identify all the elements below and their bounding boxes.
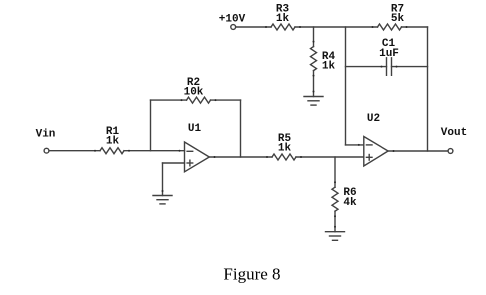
wire C1 branch left [346,66,387,68]
wire feedback right vertical down to U1 output [240,100,242,157]
pin dot ground G2 [313,91,315,93]
pin dot R6 bottom [334,215,336,217]
svg-text:+10V: +10V [219,13,246,25]
wire U1 noninverting input to ground [163,162,185,164]
op-amp U2 minus sign [366,144,372,146]
pin dot R4 bottom [313,75,315,77]
pin dot R6 top [334,181,336,183]
svg-text:5k: 5k [391,13,405,25]
ground G3 under R6 [326,231,345,233]
op-amp U1 [185,142,210,172]
pin dot R4 top [313,41,315,43]
pin dot R3 left [265,26,267,28]
pin dot R2 right [215,99,217,101]
pin dot ground G3 [334,226,336,228]
resistor R1 [100,148,124,154]
wire R2 branch right horizontal [211,99,241,101]
op-amp U1 plus sign [187,162,193,164]
pin dot R5 left [266,156,268,158]
op-amp U1 minus sign [187,150,193,152]
pin dot C1 left [381,66,383,68]
pin dot C1 right [396,66,398,68]
resistor R2 [187,97,211,103]
wire C1 branch right [392,66,428,68]
svg-text:Vin: Vin [36,128,56,140]
wire feedback left vertical (node A up to R2) [150,100,152,151]
resistor R3 [271,24,295,30]
wire R7 to right vertical [402,26,428,28]
svg-text:Vout: Vout [441,127,467,139]
wire Vin to R1 [49,150,100,152]
svg-text:1k: 1k [276,13,290,25]
node Vout terminal [448,149,453,154]
wire U2 output to Vout [388,150,448,152]
pin dot R7 right [406,26,408,28]
wire R2 branch left horizontal [151,99,187,101]
capacitor C1 plates [386,58,388,76]
pin dot R2 left [181,99,183,101]
wire U2 inverting branch vertical (node C down to U2) [345,27,347,145]
resistor R6 [332,187,338,211]
resistor R5 [272,154,296,160]
op-amp U2 plus sign [366,156,372,158]
ground G2 under R4 [304,96,323,98]
wire R4 to ground [313,71,315,97]
pin dot R1 left [94,150,96,152]
svg-text:Figure 8: Figure 8 [223,264,280,283]
pin dot R3 right [299,26,301,28]
svg-text:10k: 10k [184,87,204,99]
svg-text:U1: U1 [188,123,202,135]
pin dot R1 right [128,150,130,152]
svg-text:1k: 1k [278,142,292,154]
pin dot R5 right [300,156,302,158]
ground G1 under U1 [153,195,172,197]
wire R3 to R7 (top rail node C) [295,26,378,28]
wire node B down to R6 [334,157,336,187]
wire U1 output to R5 [209,156,272,158]
resistor R7 [378,24,402,30]
pin dot R7 left [372,26,374,28]
wire R6 to ground [334,211,336,232]
wire R5 to U2 noninverting input (node B) [296,156,364,158]
svg-text:1k: 1k [322,60,336,72]
wire node C down to R4 [313,27,315,47]
node Vin terminal [44,148,49,153]
pin dot U2 inverting [358,144,360,146]
wire right vertical down to output node [427,27,429,151]
node +10V terminal [231,25,236,30]
svg-text:4k: 4k [343,197,357,209]
pin dot ground G1 [162,190,164,192]
svg-text:1k: 1k [106,135,120,147]
pin dot U2 output [393,150,395,152]
wire R1 to U1 inverting input (node A) [124,150,185,152]
op-amp U2 [364,137,388,167]
wire to U2 inverting input [346,144,364,146]
pin dot U1 output [214,156,216,158]
wire +10V to R3 [236,26,271,28]
pin dot U1 inverting [179,150,181,152]
resistor R4 [311,47,317,71]
svg-text:1uF: 1uF [379,48,399,60]
svg-text:U2: U2 [367,113,380,125]
